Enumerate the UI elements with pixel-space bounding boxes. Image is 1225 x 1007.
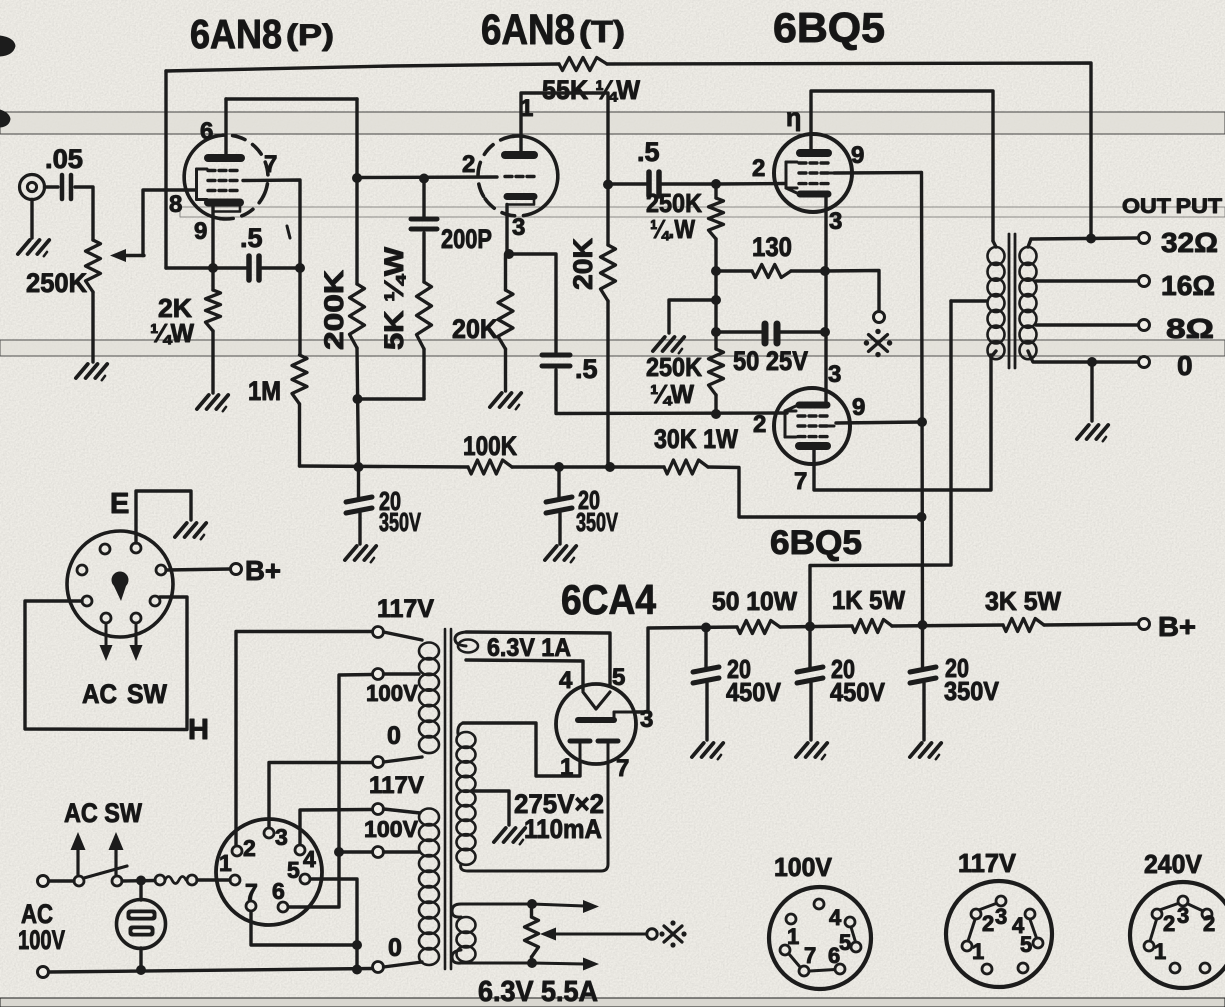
svg-text:450V: 450V <box>830 677 886 707</box>
svg-text:2: 2 <box>753 411 766 438</box>
wire pin7 to 0-line <box>251 912 357 945</box>
svg-text:30K 1W: 30K 1W <box>654 424 738 454</box>
capacitor C6 .5 (coupling) <box>637 137 660 196</box>
svg-text:¼W: ¼W <box>650 379 694 409</box>
ground (R4 2K) <box>197 395 228 411</box>
label 0 (c6) <box>388 934 402 962</box>
pin 3 label P2 <box>275 824 288 850</box>
wire c4 stub <box>384 809 421 813</box>
wire U2 plate pin1 <box>521 93 608 245</box>
terminal (bias test point) <box>874 312 885 323</box>
bottom scan edge <box>0 998 1225 1007</box>
node dot screen U1 <box>295 263 305 273</box>
node dot 130-node <box>711 266 721 276</box>
wire 200P to 5K <box>422 233 425 282</box>
pin 3 label U4 <box>828 361 841 388</box>
tube U2 6AN8 triode envelope <box>478 136 558 216</box>
label 100V (c5) <box>364 816 419 842</box>
capacitor C1 .05 <box>45 144 83 199</box>
left edge blob <box>0 36 15 56</box>
resistor R11 250K 1/4W <box>646 188 724 244</box>
capacitor C10 20/450V <box>797 654 886 707</box>
wire heater arrow bottom <box>532 958 599 971</box>
svg-text:4: 4 <box>829 905 842 930</box>
svg-text:6.3V 5.5A: 6.3V 5.5A <box>478 976 598 1007</box>
lamp PL1 stub bottom <box>139 948 142 970</box>
arrow AC pin <box>100 623 113 661</box>
resistor R3 55K 1/4W <box>542 58 640 106</box>
svg-text:3: 3 <box>829 208 842 235</box>
transformer T1 HV winding <box>457 732 476 865</box>
terminal 32 ohm <box>1139 233 1150 244</box>
wire 0 tap <box>1028 351 1138 362</box>
winding 6.3V 5.5A <box>452 904 598 1007</box>
capacitor C8 50/25V <box>733 324 808 376</box>
svg-text:3: 3 <box>1177 903 1189 928</box>
label 6BQ5 title (upper) <box>773 4 885 51</box>
wire plate node to U2 grid <box>357 175 497 179</box>
node dot 5K-jog <box>353 394 363 404</box>
node dot pin7-join <box>352 940 362 950</box>
label AC (input) <box>21 899 53 929</box>
pin 6 label U1 <box>200 118 213 145</box>
wire common cathode mid <box>824 271 827 332</box>
resistor R9 20K (plate load) <box>568 237 616 301</box>
terminal AC hot <box>38 876 49 887</box>
wire C11 ground stub <box>922 683 925 740</box>
wire 130 left <box>716 269 752 272</box>
capacitor C3 200P <box>411 219 492 254</box>
terminal 8 ohm <box>1139 320 1150 331</box>
wire rail to output <box>607 63 1091 239</box>
tube U5 heater <box>583 692 610 709</box>
svg-text:8Ω: 8Ω <box>1166 313 1214 344</box>
node dot cathode node <box>820 266 830 276</box>
svg-text:5: 5 <box>287 857 300 883</box>
pin 3 label U5 <box>640 706 653 733</box>
label 0 ohm <box>1177 350 1193 381</box>
pin 7 label U3 <box>786 104 801 132</box>
wire plate node down <box>355 99 358 284</box>
wire B+ pin <box>166 569 230 570</box>
svg-text:117V: 117V <box>958 848 1017 878</box>
scan streak band <box>0 112 1225 134</box>
wire secondary top lead <box>1028 239 1031 247</box>
wire screen node down <box>298 268 301 355</box>
svg-text:6: 6 <box>272 878 285 904</box>
wire jack to C1 <box>45 185 59 188</box>
node dot pin6-c5 <box>334 847 344 857</box>
svg-text:3: 3 <box>640 706 653 733</box>
ground (secondary) <box>1077 425 1108 441</box>
svg-text:2: 2 <box>462 151 475 178</box>
lamp PL1 stub top <box>139 881 142 900</box>
label 117V (c1) <box>377 595 434 623</box>
label 6BQ5 title (lower) <box>770 524 862 562</box>
scan streak band <box>0 340 1225 356</box>
ground (input jack) <box>18 240 49 256</box>
terminal tap 0 (c6) <box>373 962 384 973</box>
node dot rail-C5 <box>554 462 564 472</box>
wire C1 to pot <box>75 187 93 240</box>
label 0 (c3) <box>387 722 401 750</box>
svg-text:.5: .5 <box>240 223 263 253</box>
ground (R10) <box>490 393 521 409</box>
node dot pin5-0line <box>352 965 362 975</box>
svg-text:100K: 100K <box>463 431 517 461</box>
transformer T2 core <box>1009 234 1015 368</box>
svg-text:B+: B+ <box>1158 611 1196 642</box>
left edge blob <box>0 110 10 127</box>
node dot screen-Bplus <box>918 620 928 630</box>
svg-text:0: 0 <box>1177 350 1193 381</box>
svg-text:7: 7 <box>616 755 629 782</box>
svg-text:9: 9 <box>194 218 207 245</box>
socket P1 octal envelope <box>67 531 173 637</box>
wire B rail left <box>300 466 469 467</box>
svg-text:240V: 240V <box>1144 849 1203 879</box>
tube U5 cathode <box>578 712 636 720</box>
pin 7 label U4 <box>794 468 807 495</box>
wire pin1 to HV top <box>463 723 580 776</box>
tube U1 6AN8 pentode envelope <box>184 135 268 219</box>
terminal tap 0 (c3) <box>373 757 384 768</box>
svg-text:5: 5 <box>839 930 851 955</box>
wire E pin to ground <box>136 491 191 543</box>
node dot grid line-250K <box>711 409 721 419</box>
wire pin6 to 200K node <box>226 97 357 100</box>
svg-text:55K ¼W: 55K ¼W <box>542 75 640 105</box>
svg-text:7: 7 <box>804 943 816 968</box>
transformer T2 secondary winding <box>1020 247 1037 359</box>
terminal tap 100V (c2) <box>373 669 384 680</box>
terminal AC neutral <box>38 967 49 978</box>
resistor R13 250K 1/4W <box>646 349 724 409</box>
wire primary bottom lead <box>991 351 996 357</box>
svg-text:6BQ5: 6BQ5 <box>773 4 885 51</box>
node dot plate-grid <box>352 173 362 183</box>
svg-text:AC: AC <box>82 679 117 709</box>
ground (HV CT) <box>494 828 525 844</box>
wire screen bus vertical <box>922 173 923 626</box>
svg-text:¼W: ¼W <box>150 318 194 348</box>
ground (E pin) <box>175 523 206 539</box>
resistor R10 20K (cathode) <box>452 290 513 349</box>
svg-text:7: 7 <box>264 151 277 178</box>
terminal hum test <box>647 929 657 939</box>
node dot screen-lower <box>917 417 927 427</box>
svg-text:.05: .05 <box>45 144 83 174</box>
svg-text:3: 3 <box>995 904 1007 929</box>
svg-text:50 10W: 50 10W <box>712 586 797 616</box>
label 100V (c2) <box>366 680 419 706</box>
lamp PL1 envelope <box>117 900 166 949</box>
pin 2 label U3 <box>752 155 765 182</box>
winding 6.3V 1A <box>455 632 610 690</box>
terminal 16 ohm <box>1139 276 1150 287</box>
svg-text:H: H <box>188 714 209 746</box>
wire secondary ground stub <box>1090 362 1093 421</box>
wire C2 to screen node <box>262 266 300 269</box>
ground (C5) <box>545 546 576 562</box>
wire R10 to ground <box>504 349 507 391</box>
node dot feedback tap <box>1086 234 1096 244</box>
tube U5 plate 2 <box>598 741 618 762</box>
svg-text:2: 2 <box>1163 911 1175 936</box>
wire C4 stub <box>357 467 360 500</box>
wire rail mid <box>512 465 664 468</box>
pin 9 label U4 <box>852 394 865 421</box>
svg-text:9: 9 <box>852 394 865 421</box>
wire AC neutral line <box>49 969 373 973</box>
wire heater arrow top <box>532 900 599 913</box>
wire pin2 to c1 <box>236 632 372 846</box>
svg-text:AC SW: AC SW <box>64 798 142 828</box>
node dot cathode U2 <box>504 249 514 259</box>
resistor R7 30K 1W <box>654 424 738 474</box>
terminal 0 ohm <box>1139 357 1150 368</box>
pin 1 label U5 <box>560 754 573 781</box>
svg-text:1: 1 <box>787 924 799 949</box>
svg-text:(T): (T) <box>579 14 625 49</box>
svg-text:1M: 1M <box>248 376 281 406</box>
wire c5 stub <box>384 850 420 853</box>
scan streak band <box>180 207 1225 217</box>
pin 2 label U2 <box>462 151 475 178</box>
tube U3 6BQ5 envelope (upper) <box>774 134 852 212</box>
wire cathode to U4 <box>824 332 827 402</box>
wire pin3 to c3 <box>269 763 372 828</box>
svg-text:6AN8: 6AN8 <box>190 11 282 57</box>
wire 30K step to screen node <box>708 467 921 517</box>
node dot CT-Bplus <box>805 622 815 632</box>
pin 7 label U1 <box>264 151 277 178</box>
wire C9 stub <box>704 627 707 670</box>
wire 8ohm tap <box>1036 323 1138 326</box>
wire branch to c5 <box>339 850 372 853</box>
wire C11 stub <box>921 625 924 670</box>
wire feedback rail top <box>166 64 559 71</box>
wire R2 to rail <box>357 348 359 467</box>
node dot 0-ground <box>1087 357 1097 367</box>
wire R11 to 130 node <box>714 239 717 271</box>
wire 130 to cathode node <box>791 269 825 272</box>
svg-text:32Ω: 32Ω <box>1161 227 1218 258</box>
svg-text:η: η <box>786 104 801 132</box>
socket P2 pins <box>230 828 310 912</box>
label 6AN8(P) title <box>190 11 334 57</box>
wire rail seg2 <box>780 626 852 627</box>
wire jack ground stub <box>30 200 33 239</box>
svg-text:450V: 450V <box>726 677 782 707</box>
wire R9 to rail <box>606 301 609 467</box>
socket P1 pins <box>77 543 166 623</box>
ground (C10) <box>796 743 827 759</box>
ground (bias network) <box>653 337 684 353</box>
wire 16ohm tap <box>1036 279 1138 282</box>
svg-text:1: 1 <box>972 939 984 964</box>
wire pin4 to c4 <box>300 810 372 845</box>
arrow SW pin <box>130 623 143 661</box>
svg-text:6: 6 <box>200 118 213 145</box>
wire rail seg3 <box>892 625 1003 626</box>
svg-text:1: 1 <box>219 850 232 876</box>
svg-text:5: 5 <box>612 664 625 691</box>
resistor R6 100K <box>463 431 517 474</box>
node dot cathode U1 <box>208 263 218 273</box>
label AC (plug) <box>82 679 117 709</box>
node dot screen-feed <box>917 512 927 522</box>
wire rail to B+ term <box>1044 624 1138 625</box>
pin 1 label U2 <box>520 95 533 122</box>
node dot lamp bottom <box>136 965 146 975</box>
transformer T1 primary upper <box>419 643 439 754</box>
svg-text:5K ¼W: 5K ¼W <box>379 246 409 350</box>
arrow switch AC <box>71 832 86 875</box>
svg-text:50 25V: 50 25V <box>733 346 808 376</box>
svg-text:100V: 100V <box>774 852 833 882</box>
switch S1 lever <box>84 866 127 878</box>
svg-text:8: 8 <box>169 191 182 218</box>
tube U2 internals (plate, grid, cathode) <box>505 155 534 205</box>
label 6AN8(T) title <box>481 6 625 54</box>
svg-text:¼.W: ¼.W <box>650 214 695 244</box>
node dot filter1 <box>701 623 711 633</box>
wire R4 to ground <box>211 331 214 393</box>
pin 9 label U3 <box>851 142 864 169</box>
label 110mA <box>524 814 602 844</box>
resistor R12 130 <box>752 232 792 278</box>
node dot grid node upper <box>711 179 721 189</box>
label 100V (input) <box>18 925 65 955</box>
capacitor C4 20/350V <box>346 486 421 537</box>
svg-text:350V: 350V <box>379 507 421 537</box>
socket P2 selector envelope <box>216 819 322 925</box>
label 275Vx2 <box>514 789 604 819</box>
pin 9 label U1 <box>194 218 207 245</box>
svg-text:9: 9 <box>851 142 864 169</box>
node dot heater top <box>527 899 537 909</box>
svg-text:7: 7 <box>794 468 807 495</box>
svg-text:117V: 117V <box>377 595 434 623</box>
capacitor C2 .5 (feedback) <box>240 223 290 280</box>
wire U4 screen pin9 <box>836 422 921 423</box>
wire jog 5K bottom <box>358 397 425 400</box>
wire c3 stub <box>384 757 423 762</box>
pin 2 label U4 <box>753 411 766 438</box>
svg-text:350V: 350V <box>576 507 618 537</box>
label OUTPUT <box>1122 195 1222 218</box>
svg-text:SW: SW <box>127 679 167 709</box>
wire 50uF right <box>779 330 825 333</box>
wire cathode to bypass <box>509 254 556 352</box>
resistor R8 5K 1/4W <box>379 246 432 350</box>
svg-text:3: 3 <box>512 214 525 241</box>
node dot heater bottom <box>527 958 537 968</box>
tube U4 internals <box>785 405 834 446</box>
svg-text:130: 130 <box>752 232 792 262</box>
tube U1 internals (plate, grids, cathode) <box>197 158 242 212</box>
svg-text:117V: 117V <box>369 772 424 799</box>
wire cathode feedback line <box>166 266 246 269</box>
resistor R14 50 10W <box>712 586 797 634</box>
arrow switch SW <box>109 832 124 875</box>
svg-text:E: E <box>110 488 129 520</box>
wire feedback left drop <box>164 71 167 268</box>
node dot rail-200K <box>354 462 364 472</box>
wire U3 screen pin9 <box>834 171 921 175</box>
wire gnd branch <box>669 300 716 333</box>
pin 7 label U5 <box>616 755 629 782</box>
wire to test terminal <box>825 271 879 312</box>
label 16 ohm <box>1161 270 1215 301</box>
svg-text:B+: B+ <box>245 555 281 586</box>
tube U5 6CA4 envelope <box>556 684 636 764</box>
wire primary top lead <box>993 241 996 247</box>
reference mark (hum) <box>659 920 686 947</box>
wire HV top curve <box>458 723 463 734</box>
node dot coupling tap <box>603 180 613 190</box>
svg-text:110mA: 110mA <box>524 814 602 844</box>
wire 5K to jog <box>422 349 425 399</box>
svg-text:4: 4 <box>303 846 316 872</box>
wire HV center tap <box>474 791 509 825</box>
wire C5 stub <box>557 467 560 500</box>
svg-text:2: 2 <box>243 835 256 861</box>
svg-text:250K: 250K <box>646 352 702 382</box>
transformer T1 primary lower <box>419 809 439 966</box>
svg-text:100V: 100V <box>366 680 419 706</box>
capacitor C7 .5 (to lower grid) <box>542 354 598 384</box>
terminal tap 117V (c1) <box>373 627 384 638</box>
pin 7 label P2 <box>245 879 258 905</box>
transformer T2 primary winding <box>988 247 1005 359</box>
svg-text:6BQ5: 6BQ5 <box>770 524 862 562</box>
tube U5 plate 1 <box>570 741 590 762</box>
wire C5 to ground <box>558 513 561 544</box>
socket 240V pinout <box>1130 849 1225 988</box>
node dot 50uF-cathode <box>820 327 830 337</box>
label 32 ohm <box>1161 227 1218 258</box>
potentiometer R1 250K <box>26 240 101 298</box>
terminal B+ (plug) <box>231 564 242 575</box>
svg-text:16Ω: 16Ω <box>1161 270 1215 301</box>
pin 5 label P2 <box>287 857 300 883</box>
pin 4 label P2 <box>303 846 316 872</box>
wire C10 ground stub <box>809 683 812 740</box>
wire c2 stub <box>384 672 420 675</box>
wire pot to ground <box>91 292 94 362</box>
wire cathode res top <box>504 254 507 290</box>
socket P1 key <box>112 572 129 602</box>
svg-text:2: 2 <box>1203 911 1215 936</box>
switch S1 contact b <box>112 876 122 886</box>
wire U1 plate pin6 up <box>224 99 227 158</box>
svg-text:2: 2 <box>982 911 994 936</box>
wire pin5 to 0-line <box>311 879 357 969</box>
wire U4 plate pin7 <box>814 355 991 490</box>
label SW (plug) <box>127 679 167 709</box>
wire connector to pin1 <box>197 878 230 881</box>
capacitor C11 20/350V <box>910 653 1000 706</box>
svg-text:0: 0 <box>387 722 401 750</box>
node dot 50uF-node <box>711 327 721 337</box>
wire bias mid <box>714 271 717 349</box>
tube U3 internals <box>786 153 835 194</box>
label B+ (plug) <box>245 555 281 586</box>
node dot plate-200P <box>419 174 429 184</box>
wiper arrow hum pot <box>540 928 647 941</box>
